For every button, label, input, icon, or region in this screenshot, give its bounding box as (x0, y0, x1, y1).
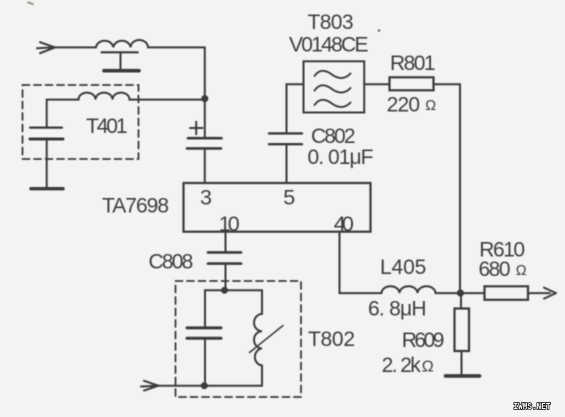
svg-text:R609: R609 (402, 329, 445, 352)
svg-text:C808: C808 (149, 251, 194, 274)
svg-text:40: 40 (334, 212, 354, 236)
svg-text:220: 220 (387, 93, 421, 116)
svg-text:C802: C802 (311, 125, 356, 148)
svg-text:Ω: Ω (516, 263, 527, 279)
svg-text:10: 10 (219, 212, 240, 236)
svg-text:T802: T802 (308, 328, 355, 351)
svg-text:2. 2k: 2. 2k (382, 354, 422, 377)
svg-text:Ω: Ω (422, 359, 434, 376)
svg-text:T803: T803 (308, 11, 354, 34)
svg-text:6. 8μH: 6. 8μH (368, 298, 427, 321)
svg-text:R801: R801 (390, 52, 436, 75)
svg-text:Ω: Ω (425, 98, 436, 114)
svg-text:IWMS.NET: IWMS.NET (514, 402, 552, 412)
svg-text:L405: L405 (380, 256, 426, 279)
svg-text:3: 3 (200, 185, 212, 209)
svg-text:V0148CE: V0148CE (289, 34, 369, 57)
svg-text:5: 5 (283, 185, 295, 209)
svg-text:0. 01μF: 0. 01μF (308, 146, 374, 169)
svg-text:TA7698: TA7698 (102, 195, 169, 218)
svg-text:T401: T401 (86, 115, 128, 138)
svg-text:680: 680 (479, 258, 511, 281)
